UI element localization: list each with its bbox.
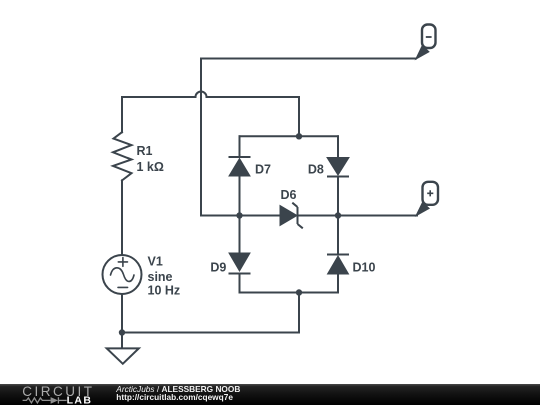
svg-text:sine: sine [148, 270, 173, 284]
svg-text:D6: D6 [281, 188, 297, 202]
svg-text:LAB: LAB [67, 394, 93, 405]
svg-text:D10: D10 [353, 260, 376, 274]
svg-text:10 Hz: 10 Hz [148, 284, 181, 298]
svg-text:D9: D9 [210, 260, 226, 274]
svg-text:V1: V1 [148, 255, 163, 269]
svg-text:R1: R1 [137, 144, 153, 158]
svg-text:D8: D8 [308, 162, 324, 176]
svg-text:http://circuitlab.com/cqewq7e: http://circuitlab.com/cqewq7e [116, 392, 233, 402]
svg-text:1 kΩ: 1 kΩ [137, 160, 164, 174]
svg-text:D7: D7 [255, 162, 271, 176]
